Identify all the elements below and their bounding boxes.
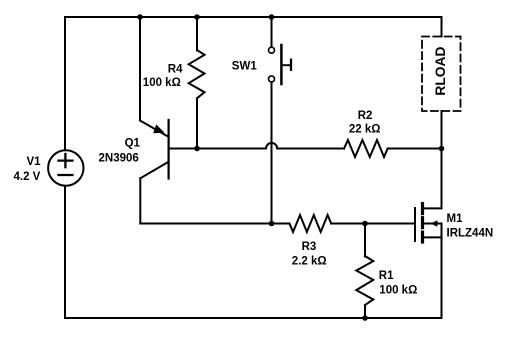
wire R1 top xyxy=(364,224,366,257)
junction node R2 / RLOAD / drain xyxy=(439,146,445,152)
svg-text:Q1: Q1 xyxy=(125,138,141,150)
wire SW1 top xyxy=(271,17,273,47)
wire Q1 collector down xyxy=(139,178,141,223)
junction node base / R4 xyxy=(194,146,200,152)
resistor R2 xyxy=(344,140,388,157)
svg-text:100 kΩ: 100 kΩ xyxy=(143,77,181,89)
transistor Q1 xyxy=(140,120,169,179)
switch SW1 xyxy=(269,45,292,84)
wire R1 bottom xyxy=(364,305,366,318)
wire RLOAD bottom xyxy=(441,111,443,149)
wire bottom rail xyxy=(65,317,442,319)
wire left rail lower (V1 minus to bottom rail) xyxy=(64,186,66,318)
junction node top rail / R4 xyxy=(194,14,200,20)
svg-text:2.2 kΩ: 2.2 kΩ xyxy=(292,255,327,267)
wire left rail upper (V1 plus to top rail) xyxy=(64,17,66,150)
MOSFET M1 xyxy=(415,204,442,242)
svg-text:V1: V1 xyxy=(27,156,42,168)
resistor R3 xyxy=(290,215,332,232)
wire R3 right to gate xyxy=(331,223,415,225)
svg-text:R2: R2 xyxy=(358,110,373,122)
resistor R4 xyxy=(189,50,205,98)
svg-text:M1: M1 xyxy=(447,213,464,225)
svg-text:2N3906: 2N3906 xyxy=(99,153,139,165)
wire Q1 base to R4 node, hop over SW1 wire, to R2 xyxy=(169,143,344,149)
wire R4 bottom xyxy=(196,98,198,148)
wire M1 source to bottom rail xyxy=(441,237,443,318)
load RLOAD dashed box xyxy=(422,37,461,112)
resistor R1 xyxy=(356,256,373,305)
svg-text:100 kΩ: 100 kΩ xyxy=(379,285,417,297)
voltage source V1 xyxy=(48,150,83,185)
wire R2 right to drain node xyxy=(388,148,442,150)
wire R4 top xyxy=(196,17,198,51)
junction node R1 / bottom rail xyxy=(362,315,368,321)
wire top rail xyxy=(65,17,442,37)
svg-text:4.2 V: 4.2 V xyxy=(14,171,41,183)
svg-text:IRLZ44N: IRLZ44N xyxy=(447,228,494,240)
wire collector horizontal to SW1 node xyxy=(140,223,271,225)
junction node R3 / R1 / gate xyxy=(362,221,368,227)
wire SW1 bottom to collector node xyxy=(271,82,273,224)
junction node top rail / emitter xyxy=(137,14,143,20)
junction node top rail / SW1 xyxy=(269,14,275,20)
wire R3 left from collector node xyxy=(272,223,290,225)
wire M1 drain drop xyxy=(441,149,443,208)
svg-text:RLOAD: RLOAD xyxy=(433,47,448,96)
svg-text:22 kΩ: 22 kΩ xyxy=(349,123,381,135)
svg-text:R4: R4 xyxy=(168,64,183,76)
wire Q1 emitter drop from top rail xyxy=(139,17,141,121)
svg-text:SW1: SW1 xyxy=(232,60,258,72)
svg-text:R3: R3 xyxy=(302,241,317,253)
svg-text:R1: R1 xyxy=(379,270,394,282)
junction node collector / SW1 / R3 xyxy=(269,221,275,227)
